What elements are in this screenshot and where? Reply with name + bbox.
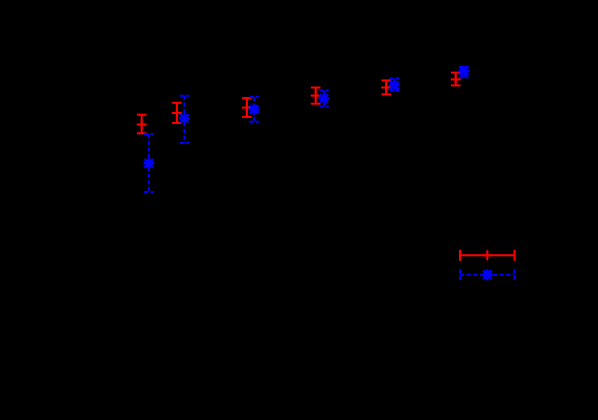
legend red errorbar sample xyxy=(460,250,515,261)
red errorbar point 3 xyxy=(242,98,252,117)
blue dashed errorbar point 1 xyxy=(144,134,154,192)
legend blue star marker xyxy=(482,269,493,280)
blue dashed errorbar point 3 xyxy=(249,97,259,122)
red errorbar point 2 xyxy=(172,103,182,123)
red errorbar point 1 xyxy=(137,115,147,134)
blue star marker 1 xyxy=(143,158,154,169)
blue dashed errorbar point 4 xyxy=(319,90,329,106)
blue dashed errorbar point 2 xyxy=(180,96,190,143)
red errorbar point 6 xyxy=(451,73,461,86)
legend red plus marker xyxy=(482,250,492,260)
blue star marker 2 xyxy=(179,113,190,124)
blue dashed errorbar point 5 xyxy=(389,79,399,91)
red plus marker 4 xyxy=(311,91,321,101)
red plus marker 2 xyxy=(172,108,182,118)
red plus marker 5 xyxy=(381,83,391,93)
red plus marker 3 xyxy=(242,103,252,113)
red plus marker 6 xyxy=(451,74,461,84)
blue star marker 3 xyxy=(249,104,260,115)
red plus marker 1 xyxy=(137,120,147,130)
legend blue dashed errorbar sample xyxy=(460,269,515,280)
blue dashed errorbar point 6 xyxy=(459,67,469,78)
blue star marker 4 xyxy=(319,93,330,104)
red errorbar point 5 xyxy=(381,80,391,94)
red errorbar point 4 xyxy=(311,88,321,104)
blue star marker 5 xyxy=(389,80,400,91)
blue star marker 6 xyxy=(458,66,469,77)
